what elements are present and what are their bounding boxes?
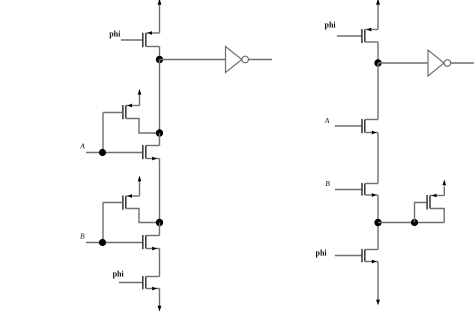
inverter U1 (left output buffer) (226, 47, 249, 73)
ground arrow (right circuit) (376, 262, 380, 306)
wire rail (node X down to node N1) (159, 60, 161, 134)
node A junction dot (99, 149, 106, 156)
transistor M10 PMOS keeper (diode-connected, right circuit) (415, 179, 447, 222)
svg-text:B: B (325, 179, 330, 188)
transistor M8 NMOS (gate A, right pulldown) (335, 119, 378, 134)
svg-text:phi: phi (325, 21, 337, 30)
transistor M3 NMOS (gate A, left pulldown) (143, 133, 160, 160)
wire rail (node Y down to M8 drain) (377, 63, 379, 120)
svg-text:B: B (80, 231, 85, 240)
inverter U2 (right output buffer) (428, 50, 451, 76)
svg-text:phi: phi (109, 29, 121, 38)
wire riser (A node up to M2 gate) (102, 113, 104, 153)
transistor M6 NMOS evaluate (gate phi, left circuit) (119, 276, 160, 290)
wire node X to inverter input (160, 59, 226, 61)
wire node Y to inverter input (378, 62, 428, 64)
wire rail (M3 source down to node N2) (159, 159, 161, 223)
transistor M5 NMOS (gate B, left pulldown) (143, 223, 160, 251)
transistor M2 PMOS internal precharge (gate A, left circuit) (103, 89, 160, 133)
transistor M1 PMOS precharge (gate phi, left circuit) (121, 31, 160, 47)
wire rail (M8 source down to M9 drain) (377, 133, 379, 184)
node N4 junction dot (keeper connection node) (411, 219, 418, 226)
wire input A to M3 gate (86, 152, 143, 154)
VDD arrow (top left supply) (158, 0, 162, 33)
wire rail (M5 source down to M6 drain) (159, 249, 161, 277)
node N2 junction dot (left internal node 2) (156, 219, 163, 226)
wire node N3 to node N4 and to M10 drain (378, 222, 444, 224)
wire inverter U2 output (451, 62, 474, 64)
transistor M7 PMOS precharge (gate phi, right circuit) (337, 28, 378, 43)
wire rail (M7 drain to node Y) (377, 42, 379, 63)
wire rail (M1 drain to node X) (159, 47, 161, 60)
node B junction dot (99, 239, 106, 246)
node N1 junction dot (left internal node 1) (156, 129, 163, 136)
VDD arrow (top right supply) (376, 0, 380, 30)
svg-text:phi: phi (113, 269, 125, 278)
wire inverter U1 output (249, 59, 273, 61)
wire input B to M5 gate (86, 242, 143, 244)
svg-text:A: A (79, 142, 85, 151)
wire rail (M9 source down to M11 drain) (377, 195, 379, 250)
svg-text:A: A (324, 116, 330, 125)
transistor M11 NMOS evaluate (gate phi, right circuit) (335, 249, 378, 263)
node Y junction dot (right dynamic node) (374, 59, 381, 66)
transistor M9 NMOS (gate B, right pulldown) (335, 183, 378, 197)
node N3 junction dot (right internal node on rail) (374, 219, 381, 226)
ground arrow (left circuit) (158, 289, 162, 312)
node X junction dot (left dynamic node) (156, 56, 163, 63)
transistor M4 PMOS internal precharge (gate B, left circuit) (103, 176, 160, 223)
wire riser (B node up to M4 gate) (102, 203, 104, 243)
svg-text:phi: phi (316, 248, 328, 257)
